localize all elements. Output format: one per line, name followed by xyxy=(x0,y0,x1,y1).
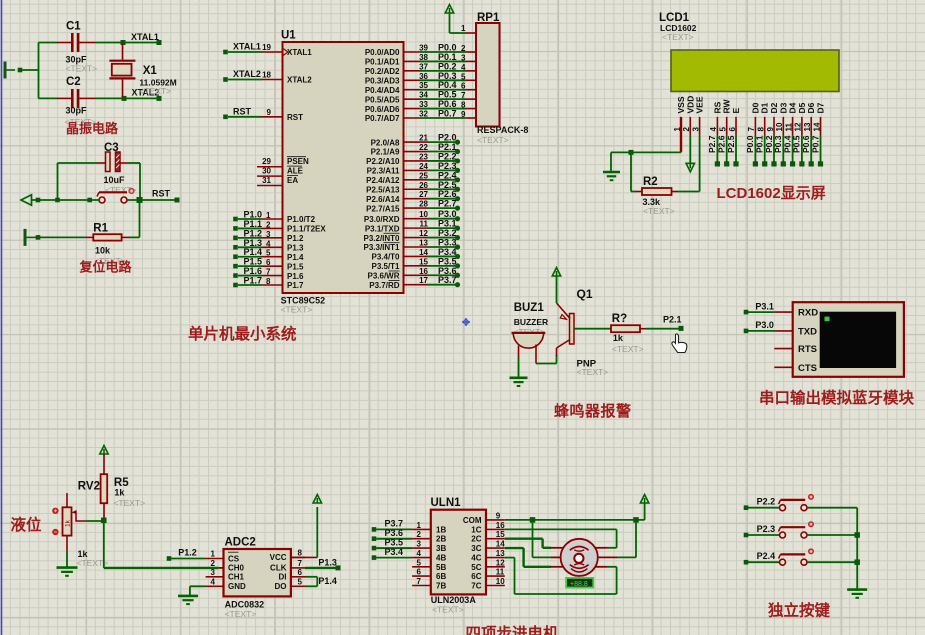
motor speed display xyxy=(566,578,593,588)
resistor R1 xyxy=(86,223,129,267)
svg-text:1k: 1k xyxy=(65,519,72,527)
svg-text:21: 21 xyxy=(419,134,428,143)
svg-text:P1.0/T2: P1.0/T2 xyxy=(287,215,316,224)
resistor R3 xyxy=(611,313,646,354)
pin XTAL2 (18) of U1 xyxy=(223,69,312,85)
svg-text:RXD: RXD xyxy=(798,308,818,319)
wire 3C to motor xyxy=(505,548,551,567)
pin CTS of bluetooth module xyxy=(774,363,817,374)
pin P2.0 (21) of U1 xyxy=(371,133,461,148)
pin P1.0 (1) of U1 xyxy=(233,210,315,225)
power terminal (R5) xyxy=(100,446,108,475)
wire P3.0 to TXD xyxy=(744,320,775,333)
svg-text:P2.3/A11: P2.3/A11 xyxy=(367,167,400,176)
stepper motor M1 xyxy=(551,539,617,576)
capacitor C2 xyxy=(57,76,96,127)
svg-text:P3.0: P3.0 xyxy=(755,320,774,330)
pin P3.6 (16) of U1 xyxy=(367,266,460,281)
svg-text:晶振电路: 晶振电路 xyxy=(66,121,119,136)
svg-text:10: 10 xyxy=(496,577,505,586)
svg-text:复位电路: 复位电路 xyxy=(79,260,133,275)
pin D4 (11) of LCD1 xyxy=(782,92,797,167)
ground terminal (crystal circuit) xyxy=(5,62,22,79)
pin P3.5 (15) of U1 xyxy=(371,256,460,271)
svg-text:P2.7/A15: P2.7/A15 xyxy=(366,204,400,213)
svg-text:7: 7 xyxy=(298,559,303,568)
svg-text:P1.6: P1.6 xyxy=(287,272,304,281)
svg-text:1: 1 xyxy=(417,521,422,530)
svg-text:37: 37 xyxy=(419,62,428,71)
svg-text:D7: D7 xyxy=(816,102,826,113)
node P1.4 wire DI/DO tie xyxy=(305,576,337,587)
svg-text:P3.3/INT1: P3.3/INT1 xyxy=(363,243,400,252)
pin DI (6) of ADC2 xyxy=(279,568,306,582)
op-amp U1 body (MCU STC89C52) xyxy=(281,30,404,315)
cursor crosshair xyxy=(462,318,470,326)
svg-text:2: 2 xyxy=(417,530,422,539)
svg-text:P3.1: P3.1 xyxy=(755,302,774,312)
node P1.2 wire to CS xyxy=(167,548,206,561)
svg-text:PSEN: PSEN xyxy=(287,157,309,166)
svg-text:5: 5 xyxy=(266,249,271,258)
pin RST (9) of U1 xyxy=(223,106,303,122)
svg-text:Q1: Q1 xyxy=(577,287,593,301)
svg-text:33: 33 xyxy=(419,100,428,109)
wire P3.1 to RXD xyxy=(744,302,775,315)
power terminal (Q1) xyxy=(552,268,560,304)
svg-text:4: 4 xyxy=(211,577,216,586)
pin D6 (13) of LCD1 xyxy=(801,92,816,167)
svg-text:2: 2 xyxy=(461,44,466,53)
svg-text:8: 8 xyxy=(266,277,271,286)
svg-text:P2.6/A14: P2.6/A14 xyxy=(366,195,400,204)
wire Q1 base xyxy=(574,328,611,330)
svg-text:CS: CS xyxy=(228,554,240,563)
svg-text:P2.2: P2.2 xyxy=(757,497,776,507)
svg-text:X1: X1 xyxy=(143,65,158,77)
svg-text:17: 17 xyxy=(419,276,428,285)
svg-text:1B: 1B xyxy=(436,525,446,534)
svg-text:10: 10 xyxy=(419,210,428,219)
svg-text:6B: 6B xyxy=(436,572,446,581)
svg-text:ULN1: ULN1 xyxy=(431,497,462,509)
svg-text:28: 28 xyxy=(419,200,428,209)
svg-text:P2.5/A13: P2.5/A13 xyxy=(366,185,400,194)
svg-text:P0.2/AD2: P0.2/AD2 xyxy=(365,67,400,76)
pin CH0 (2) of ADC2 xyxy=(211,559,245,573)
svg-text:1C: 1C xyxy=(471,525,481,534)
svg-text:四项步进电机: 四项步进电机 xyxy=(466,624,560,635)
wire 2C to motor xyxy=(505,539,551,548)
pin P2.2 (23) of U1 xyxy=(366,151,460,166)
svg-text:<TEXT>: <TEXT> xyxy=(281,305,313,315)
wire R1 left xyxy=(35,235,86,240)
svg-text:26: 26 xyxy=(419,181,428,190)
svg-text:P0.7: P0.7 xyxy=(810,135,820,153)
svg-text:1: 1 xyxy=(461,24,466,33)
svg-text:C2: C2 xyxy=(66,76,81,88)
svg-text:RST: RST xyxy=(233,106,252,116)
svg-text:4: 4 xyxy=(417,549,422,558)
pin VDD (2) of LCD1 xyxy=(682,92,695,136)
svg-text:P0.7: P0.7 xyxy=(438,109,457,119)
svg-text:+88.8: +88.8 xyxy=(570,581,588,588)
svg-text:34: 34 xyxy=(419,91,428,100)
svg-text:3: 3 xyxy=(266,230,271,239)
svg-text:P3.2/INT0: P3.2/INT0 xyxy=(363,234,400,243)
transistor Q1 xyxy=(557,287,609,377)
ground terminal (R1) xyxy=(25,229,35,246)
svg-text:25: 25 xyxy=(419,171,428,180)
svg-text:30pF: 30pF xyxy=(66,106,88,116)
svg-text:<TEXT>: <TEXT> xyxy=(66,64,98,74)
ground (ADC) xyxy=(178,595,198,598)
svg-text:P3.5: P3.5 xyxy=(385,537,404,547)
svg-text:LCD1602显示屏: LCD1602显示屏 xyxy=(717,185,826,202)
svg-text:P3.7/RD: P3.7/RD xyxy=(369,281,399,290)
pin P1.3 (4) of U1 xyxy=(233,238,304,253)
svg-text:RV2: RV2 xyxy=(78,481,100,493)
svg-text:9: 9 xyxy=(267,108,272,117)
svg-text:P3.0/RXD: P3.0/RXD xyxy=(364,215,400,224)
svg-text:TXD: TXD xyxy=(798,326,817,337)
pin CLK (7) of ADC2 xyxy=(270,559,305,573)
svg-text:2C: 2C xyxy=(471,535,481,544)
svg-text:XTAL2: XTAL2 xyxy=(233,69,261,79)
svg-text:1: 1 xyxy=(266,211,271,220)
pin D2 (9) of LCD1 xyxy=(764,92,779,167)
svg-text:P0.3/AD3: P0.3/AD3 xyxy=(365,76,400,85)
wire C2 row xyxy=(39,97,58,99)
wire RST junction down xyxy=(139,200,141,237)
svg-text:独立按键: 独立按键 xyxy=(768,601,831,620)
capacitor C1 xyxy=(57,21,97,74)
svg-text:6: 6 xyxy=(266,258,271,267)
wire VSS to ground xyxy=(611,150,681,172)
svg-text:C1: C1 xyxy=(66,21,81,33)
svg-text:36: 36 xyxy=(419,72,428,81)
pin P3.1 (11) of U1 xyxy=(365,219,460,234)
svg-text:8: 8 xyxy=(298,548,303,557)
wire gnd to junction xyxy=(22,69,39,71)
potentiometer RV2 xyxy=(52,481,108,569)
svg-text:RTS: RTS xyxy=(798,344,817,355)
button P2.4 xyxy=(744,548,858,565)
wire 1C to motor xyxy=(505,529,617,547)
pin P3.0 (10) of U1 xyxy=(364,209,460,224)
pin P0.0 (39) of U1, wire to RP1 pin 2 xyxy=(365,43,476,58)
svg-text:U1: U1 xyxy=(281,30,296,42)
pin P1.1 (2) of U1 xyxy=(233,219,326,234)
pin EA (31) of U1 xyxy=(257,176,298,186)
capacitor C3 xyxy=(97,142,137,195)
svg-text:P0.6/AD6: P0.6/AD6 xyxy=(365,105,400,114)
wire C3 right leg xyxy=(128,163,140,200)
svg-text:DI: DI xyxy=(279,573,287,582)
ADC U2 (ADC0832) xyxy=(224,537,291,620)
svg-text:P1.4: P1.4 xyxy=(318,576,337,586)
pin P3.3 (13) of U1 xyxy=(363,237,460,252)
svg-text:P2.2/A10: P2.2/A10 xyxy=(366,157,400,166)
svg-text:10uF: 10uF xyxy=(104,175,126,185)
wire COM to motor left common xyxy=(533,520,552,558)
pin P0.2 (37) of U1, wire to RP1 pin 4 xyxy=(365,61,476,76)
pin P2.4 (25) of U1 xyxy=(366,170,460,185)
wire junction to R2 xyxy=(631,152,636,191)
svg-text:5: 5 xyxy=(461,72,466,81)
crystal X1 xyxy=(109,44,176,97)
pin P3.7 (17) of U1 xyxy=(369,275,460,290)
wire COM rail to power xyxy=(505,503,645,523)
svg-text:XTAL2: XTAL2 xyxy=(287,76,312,85)
pin TXD of bluetooth module xyxy=(774,326,817,337)
wire C3 left leg xyxy=(58,163,98,200)
ground (RV2) xyxy=(57,566,78,569)
ground (buzzer) xyxy=(510,376,528,379)
pin RW (5) of LCD1 xyxy=(717,92,732,167)
svg-text:DO: DO xyxy=(275,582,287,591)
svg-text:6C: 6C xyxy=(471,572,481,581)
svg-text:P1.2: P1.2 xyxy=(178,548,197,558)
svg-text:BUZZER: BUZZER xyxy=(514,317,548,327)
svg-text:P2.1/A9: P2.1/A9 xyxy=(371,148,400,157)
svg-text:<TEXT>: <TEXT> xyxy=(643,206,675,216)
svg-text:P3.6/WR: P3.6/WR xyxy=(367,271,399,280)
pin 4B (4) of ULN1 xyxy=(372,547,447,563)
driver ULN1 (ULN2003A) xyxy=(431,497,487,615)
svg-text:5C: 5C xyxy=(471,563,481,572)
svg-text:E: E xyxy=(731,108,741,114)
svg-text:R2: R2 xyxy=(643,176,658,188)
svg-text:VCC: VCC xyxy=(270,553,287,562)
svg-text:6: 6 xyxy=(461,82,466,91)
wire R3 to P2.1 xyxy=(646,326,684,331)
svg-text:P1.5: P1.5 xyxy=(287,262,304,271)
svg-text:27: 27 xyxy=(419,190,428,199)
svg-text:P1.2: P1.2 xyxy=(287,234,304,243)
svg-text:<TEXT>: <TEXT> xyxy=(577,367,609,377)
svg-text:CLK: CLK xyxy=(270,564,287,573)
svg-text:CH1: CH1 xyxy=(228,573,245,582)
svg-text:<TEXT>: <TEXT> xyxy=(662,32,694,42)
svg-text:RST: RST xyxy=(152,189,171,199)
pin 4C (13) of ULN1 xyxy=(471,549,505,563)
svg-text:1: 1 xyxy=(211,550,216,559)
wire COM to motor right common xyxy=(617,520,636,558)
svg-text:COM: COM xyxy=(463,516,482,525)
svg-text:R1: R1 xyxy=(93,223,108,235)
svg-text:EA: EA xyxy=(287,176,298,185)
svg-text:4: 4 xyxy=(266,239,271,248)
pin 2B (2) of ULN1 xyxy=(372,528,447,544)
resistor pack RP1 xyxy=(476,12,528,145)
pin CS (1) of ADC2 xyxy=(206,550,240,564)
bluetooth module box xyxy=(793,302,904,377)
svg-text:ALE: ALE xyxy=(287,167,304,176)
mouse cursor hand xyxy=(672,334,687,352)
node P1.3 wire CLK xyxy=(305,557,341,570)
svg-text:22: 22 xyxy=(419,143,428,152)
svg-text:14: 14 xyxy=(496,540,505,549)
svg-text:串口输出模拟蓝牙模块: 串口输出模拟蓝牙模块 xyxy=(759,388,915,407)
LCD LCD1 (LCD1602) xyxy=(659,12,839,92)
pin 2C (15) of ULN1 xyxy=(471,530,505,544)
resistor R5 xyxy=(101,474,145,518)
svg-text:<TEXT>: <TEXT> xyxy=(432,605,464,615)
svg-text:3: 3 xyxy=(417,540,422,549)
svg-text:P0.4/AD4: P0.4/AD4 xyxy=(365,86,400,95)
svg-text:VEE: VEE xyxy=(695,96,705,113)
wire 4C to motor xyxy=(505,558,617,594)
svg-text:<TEXT>: <TEXT> xyxy=(113,498,145,508)
svg-text:P1.4: P1.4 xyxy=(287,253,304,262)
pin ALE (30) of U1 xyxy=(257,166,304,176)
svg-text:13: 13 xyxy=(419,238,428,247)
pin D5 (12) of LCD1 xyxy=(792,92,807,167)
svg-text:9: 9 xyxy=(496,511,501,520)
pin 6C (11) of ULN1 xyxy=(471,568,505,582)
svg-text:P3.1/TXD: P3.1/TXD xyxy=(365,224,400,233)
pin P3.2 (12) of U1 xyxy=(363,228,460,243)
svg-text:7C: 7C xyxy=(471,582,481,591)
pin 7B (7) of ULN1 xyxy=(412,577,446,591)
wire RV2 to ground xyxy=(66,552,68,567)
svg-text:23: 23 xyxy=(419,152,428,161)
pin P1.7 (8) of U1 xyxy=(233,276,304,291)
wire wiper to junction xyxy=(86,518,107,524)
pin P1.6 (7) of U1 xyxy=(233,266,304,281)
svg-text:15: 15 xyxy=(419,257,428,266)
svg-text:3: 3 xyxy=(461,53,466,62)
svg-text:7: 7 xyxy=(266,268,271,277)
button P2.2 xyxy=(744,494,858,511)
svg-text:3: 3 xyxy=(211,568,216,577)
pin 3B (3) of ULN1 xyxy=(372,537,447,553)
sheet border xyxy=(1,0,3,635)
svg-text:XTAL1: XTAL1 xyxy=(287,48,312,57)
svg-text:15: 15 xyxy=(496,530,505,539)
svg-text:14: 14 xyxy=(419,248,428,257)
svg-text:4B: 4B xyxy=(436,554,446,563)
wire reset row xyxy=(31,198,99,203)
svg-text:<TEXT>: <TEXT> xyxy=(225,609,257,619)
svg-text:P0.7/AD7: P0.7/AD7 xyxy=(365,114,400,123)
ground (LCD VSS) xyxy=(603,171,620,174)
pin P2.1 (22) of U1 xyxy=(371,142,461,157)
svg-text:1k: 1k xyxy=(114,488,125,498)
svg-text:3C: 3C xyxy=(471,544,481,553)
svg-text:P0.0/AD0: P0.0/AD0 xyxy=(365,48,400,57)
resistor R2 xyxy=(636,176,678,216)
svg-text:13: 13 xyxy=(496,549,505,558)
svg-text:XTAL1: XTAL1 xyxy=(233,42,261,52)
svg-text:P3.7: P3.7 xyxy=(438,275,457,285)
pin XTAL1 (19) of U1 xyxy=(223,42,312,58)
svg-text:CTS: CTS xyxy=(798,363,817,374)
svg-text:P3.4/T0: P3.4/T0 xyxy=(371,253,400,262)
svg-text:16: 16 xyxy=(419,267,428,276)
svg-text:8: 8 xyxy=(461,101,466,110)
wire C1 left xyxy=(39,43,58,99)
svg-text:2: 2 xyxy=(211,559,216,568)
pin COM (9) of ULN1 xyxy=(463,511,505,525)
wire R1 right xyxy=(129,236,140,238)
pin P1.2 (3) of U1 xyxy=(233,228,304,243)
svg-text:39: 39 xyxy=(419,44,428,53)
svg-text:P2.4/A12: P2.4/A12 xyxy=(366,176,400,185)
svg-text:7: 7 xyxy=(461,91,466,100)
svg-text:12: 12 xyxy=(496,558,505,567)
svg-text:液位: 液位 xyxy=(11,515,43,534)
svg-text:5: 5 xyxy=(417,558,422,567)
svg-text:24: 24 xyxy=(419,162,428,171)
svg-text:ULN2003A: ULN2003A xyxy=(431,595,477,605)
power terminal (ADC VCC) xyxy=(313,495,321,504)
wire buttons common xyxy=(854,508,860,590)
svg-text:P2.5: P2.5 xyxy=(726,135,736,153)
pin P3.4 (14) of U1 xyxy=(371,247,460,262)
pin P2.3 (24) of U1 xyxy=(367,161,461,176)
wire R2 to VEE xyxy=(678,191,700,193)
svg-text:P3.5/T1: P3.5/T1 xyxy=(371,262,400,271)
pin P0.6 (33) of U1, wire to RP1 pin 8 xyxy=(365,99,476,114)
svg-text:9: 9 xyxy=(461,110,466,119)
svg-text:R?: R? xyxy=(612,313,627,325)
wire C2 to XTAL2 node xyxy=(95,96,162,101)
svg-text:P1.7: P1.7 xyxy=(287,281,304,290)
svg-text:P1.3: P1.3 xyxy=(318,557,337,567)
wire buzzer to Q1 emitter xyxy=(536,348,557,364)
svg-text:5B: 5B xyxy=(436,563,446,572)
pin RXD of bluetooth module xyxy=(774,308,818,319)
svg-text:2: 2 xyxy=(266,220,271,229)
pin P2.6 (27) of U1 xyxy=(366,189,460,204)
pin 1B (1) of ULN1 xyxy=(372,519,447,535)
pin VCC (8) of ADC2 xyxy=(270,548,305,562)
svg-text:29: 29 xyxy=(262,157,271,166)
pin RS (4) of LCD1 xyxy=(707,92,722,167)
pin 5C (12) of ULN1 xyxy=(471,558,505,572)
svg-text:P1.3: P1.3 xyxy=(287,243,304,252)
svg-text:30: 30 xyxy=(262,166,271,175)
svg-text:32: 32 xyxy=(419,110,428,119)
svg-text:RST: RST xyxy=(287,113,303,122)
wire junction to CH0 xyxy=(104,520,219,568)
pin P2.7 (28) of U1 xyxy=(366,199,460,214)
svg-text:38: 38 xyxy=(419,53,428,62)
svg-text:16: 16 xyxy=(496,521,505,530)
node RST xyxy=(127,189,180,204)
buzzer BUZ1 xyxy=(512,302,549,364)
svg-text:P0.5/AD5: P0.5/AD5 xyxy=(365,95,400,104)
pin 6B (6) of ULN1 xyxy=(412,568,446,582)
svg-text:11: 11 xyxy=(496,568,505,577)
svg-text:P1.1/T2EX: P1.1/T2EX xyxy=(287,225,326,234)
svg-text:P2.4: P2.4 xyxy=(757,551,776,561)
svg-text:RESPACK-8: RESPACK-8 xyxy=(477,125,528,135)
svg-text:<TEXT>: <TEXT> xyxy=(139,86,171,96)
pin D0 (7) of LCD1 xyxy=(745,92,760,167)
svg-text:35: 35 xyxy=(419,81,428,90)
pin E (6) of LCD1 xyxy=(726,92,741,167)
pin 7C (10) of ULN1 xyxy=(471,577,505,591)
pin VSS (1) of LCD1 xyxy=(673,92,686,153)
pin CH1 (3) of ADC2 xyxy=(206,568,245,582)
wire GND pin to ground xyxy=(190,586,206,595)
pin P1.4 (5) of U1 xyxy=(233,247,304,262)
svg-text:P2.0/A8: P2.0/A8 xyxy=(371,138,400,147)
pin P0.3 (36) of U1, wire to RP1 pin 5 xyxy=(365,71,476,86)
